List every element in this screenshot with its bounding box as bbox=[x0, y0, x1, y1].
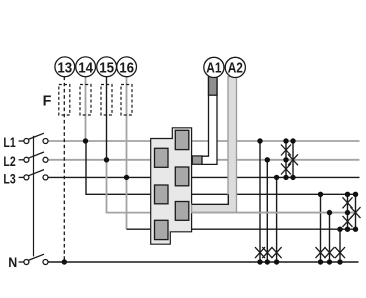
wire from L2 junction down then right to device row 5 bbox=[107, 160, 151, 213]
disconnect X on row4 tap above N bbox=[316, 247, 326, 258]
switch pole L1: stub bbox=[19, 140, 24, 142]
svg-text:16: 16 bbox=[119, 60, 134, 76]
junction dot tap3/N bbox=[274, 259, 279, 264]
wire from L3 junction down to row 6 level bbox=[126, 177, 128, 229]
disconnect X on L1-L2 bridge lower bbox=[281, 164, 291, 175]
junction dot bridgeL/L2 bbox=[283, 157, 288, 162]
junction dot row4 tap bbox=[318, 192, 323, 197]
wire L2 row right segment bbox=[192, 159, 360, 161]
wire dark elbow from device to A2 bar joining row 4 bbox=[192, 194, 229, 204]
switch pole N: stub bbox=[19, 261, 24, 263]
wire L3 row right segment bbox=[192, 176, 360, 178]
wire vertical row4 to N bbox=[320, 194, 322, 262]
junction dot tap2/L2 bbox=[265, 157, 270, 162]
wire row 6 horizontal into device bbox=[127, 228, 151, 230]
disconnect X on L1-L2 bridge upper bbox=[281, 145, 291, 156]
junction dot fuse14/L1 bbox=[83, 138, 88, 143]
terminal A1 connection pad on device bbox=[192, 156, 202, 164]
wire device row 5 output right segment bbox=[192, 212, 356, 214]
wire device row 4 output right segment bbox=[192, 193, 356, 195]
switch pole L3: stub bbox=[19, 176, 24, 178]
junction dot bridgeR/L3 bbox=[290, 175, 295, 180]
switch mechanical linkage bbox=[33, 136, 35, 257]
wire vertical L1-L3 bridge (right) bbox=[292, 141, 294, 177]
junction dot bridge2L/row4 bbox=[345, 192, 350, 197]
conductor A1 upper marked segment bbox=[209, 77, 218, 96]
junction dot bridge2L/row5 bbox=[345, 210, 350, 215]
wire vertical L2 to N (voltage tap 2) bbox=[266, 160, 268, 262]
wire L1 row right segment bbox=[192, 140, 360, 142]
switch pole L2: stub bbox=[19, 159, 24, 161]
disconnect X on tap 1 above N bbox=[255, 247, 265, 258]
fuse F13 (dashed box) bbox=[59, 85, 70, 116]
svg-text:A2: A2 bbox=[228, 61, 243, 77]
switch pole L1: blade bbox=[28, 133, 44, 139]
switch pole L2: left terminal bbox=[24, 157, 29, 162]
device U1 body (energy meter block) bbox=[151, 128, 192, 244]
wire vertical L1 to N (voltage tap 1) bbox=[259, 141, 261, 262]
junction dot tap1/N bbox=[257, 259, 262, 264]
disconnect X on tap 2 above N bbox=[262, 247, 272, 258]
wire vertical row4-row6 bridge (right) bbox=[355, 194, 357, 229]
wire vertical L3 to N (voltage tap 3) bbox=[276, 177, 278, 262]
disconnect X on row4-row5 bridge upper bbox=[343, 197, 353, 208]
wire fuse line 16 from circle 16 down to L3 junction bbox=[126, 77, 128, 178]
switch pole L2: right terminal bbox=[43, 157, 48, 162]
junction dot bridge2L/row6 bbox=[345, 227, 350, 232]
junction dot bridgeL/L1 bbox=[283, 138, 288, 143]
wire L1 row left segment bbox=[48, 140, 151, 142]
terminal circle 16 bbox=[117, 57, 137, 77]
junction dot tap3/L3 bbox=[274, 175, 279, 180]
junction dot row5tap/N bbox=[327, 259, 332, 264]
junction dot fuse15/L2 bbox=[104, 157, 109, 162]
junction dot tap1/L1 bbox=[257, 138, 262, 143]
junction dot row6 tap bbox=[337, 227, 342, 232]
svg-text:L3: L3 bbox=[3, 171, 15, 187]
wire vertical L1-L2-L3 bridge (left) bbox=[285, 141, 287, 177]
wire vertical row4-row5-row6 bridge (left) bbox=[347, 194, 349, 229]
switch pole N: right terminal bbox=[43, 260, 48, 265]
switch pole L2: blade bbox=[28, 152, 44, 158]
terminal circle 14 bbox=[76, 57, 96, 77]
terminal circle A2 bbox=[225, 57, 245, 77]
wire fuse line 15 from circle 15 down to L2 junction bbox=[106, 77, 108, 160]
switch pole L3: blade bbox=[28, 170, 44, 176]
svg-text:L2: L2 bbox=[3, 153, 15, 169]
device U1 CT window 1 (L1) bbox=[175, 130, 189, 149]
terminal circle A1 bbox=[204, 57, 224, 77]
wire from L1 junction down then right to device row 4 bbox=[86, 141, 151, 194]
device U1 CT window 2 (L2) bbox=[155, 148, 169, 167]
wire device row 6 output right segment bbox=[192, 228, 356, 230]
junction dot fuse16/L3 bbox=[124, 175, 129, 180]
wire fuse line 13 (dashed) from circle 13 down to N bbox=[63, 77, 65, 263]
switch pole N: left terminal bbox=[24, 260, 29, 265]
svg-text:14: 14 bbox=[78, 60, 93, 76]
device U1 CT window 4 bbox=[155, 185, 169, 204]
device U1 CT window 6 bbox=[155, 220, 169, 239]
junction dot bridge2R/row6 bbox=[353, 227, 358, 232]
wire L2 row left segment bbox=[48, 159, 151, 161]
conductor A2 (grey bus bar, L-shaped) bbox=[192, 77, 237, 213]
junction dot row5 tap bbox=[327, 210, 332, 215]
junction dot bridge2R/row4 bbox=[353, 192, 358, 197]
junction dot row6tap/N bbox=[337, 259, 342, 264]
device U1 CT window 3 (L3) bbox=[175, 167, 189, 186]
switch pole L3: right terminal bbox=[43, 175, 48, 180]
disconnect X on row6 tap above N bbox=[335, 247, 345, 258]
svg-text:13: 13 bbox=[57, 60, 72, 76]
switch pole L1: right terminal bbox=[43, 139, 48, 144]
disconnect X on row5 tap above N bbox=[325, 247, 335, 258]
svg-text:N: N bbox=[8, 254, 17, 270]
disconnect X on L1-L3 bridge bbox=[288, 154, 298, 165]
disconnect X on tap 3 above N bbox=[272, 247, 282, 258]
wire L3 row left segment bbox=[48, 176, 151, 178]
terminal circle 13 bbox=[55, 57, 75, 77]
svg-text:A1: A1 bbox=[206, 61, 221, 77]
junction dot bridgeL/L3 bbox=[283, 175, 288, 180]
wire vertical row6 to N bbox=[339, 229, 341, 262]
wire N row bbox=[48, 261, 359, 263]
junction dot fuse13/N bbox=[62, 259, 67, 264]
svg-text:15: 15 bbox=[99, 60, 114, 76]
junction dot bridgeR/L1 bbox=[290, 138, 295, 143]
wire fuse line 14 from circle 14 down to L1 junction bbox=[85, 77, 87, 142]
fuse F16 (dashed box) bbox=[121, 85, 132, 116]
switch pole N: blade bbox=[28, 254, 44, 260]
switch pole L3: left terminal bbox=[24, 175, 29, 180]
fuse F15 (dashed box) bbox=[101, 85, 112, 116]
wire device row 5 gray line over A2 bar bottom bbox=[192, 212, 356, 214]
switch pole L1: left terminal bbox=[24, 139, 29, 144]
device U1 CT window 5 bbox=[175, 202, 189, 221]
wire vertical row5 to N bbox=[329, 213, 331, 262]
svg-text:F: F bbox=[43, 93, 52, 110]
svg-text:L1: L1 bbox=[3, 134, 15, 150]
terminal circle 15 bbox=[97, 57, 117, 77]
junction dot tap2/N bbox=[265, 259, 270, 264]
junction dot row4tap/N bbox=[318, 259, 323, 264]
disconnect X on row4-row6 bridge bbox=[351, 207, 361, 218]
conductor A1 (white bus bar, L-shaped) bbox=[202, 77, 217, 165]
fuse F14 (dashed box) bbox=[80, 85, 91, 116]
disconnect X on row4-row5 bridge lower bbox=[343, 216, 353, 227]
